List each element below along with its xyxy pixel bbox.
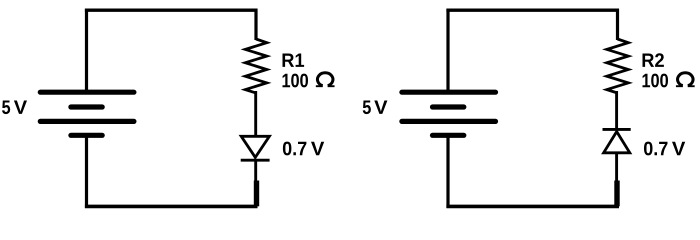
wire left-top (right circuit) — [446, 9, 449, 92]
diode D2 triangle (pointing up, anode bottom) — [604, 132, 630, 153]
wire diode to bottom thick stub (right circuit) — [614, 181, 619, 207]
wire diode to bottom thick stub (left circuit) — [254, 181, 259, 207]
wire left-top (left circuit) — [85, 9, 88, 92]
resistor R1 value 100 ohm — [283, 74, 309, 88]
resistor R1 zigzag — [245, 39, 266, 93]
wire top (left circuit) — [85, 9, 258, 12]
ohm symbol (R1 value) — [317, 73, 333, 86]
diode D1 cathode bar — [241, 159, 270, 162]
wire diode to bottom thin (right circuit) — [615, 153, 618, 183]
battery V2 plate short 2 — [433, 104, 464, 109]
ohm symbol (R2 value) — [678, 73, 694, 86]
resistor R2 value 100 ohm — [643, 74, 669, 88]
wire resistor to diode (right circuit) — [615, 91, 618, 131]
diode D2 cathode bar (on top, reversed diode) — [603, 128, 631, 131]
wire left-bottom (left circuit) — [85, 135, 88, 208]
wire diode to bottom thin (left circuit) — [254, 160, 257, 183]
diode D1 triangle (anode top, pointing down) — [241, 136, 269, 157]
battery V1 plate long top — [40, 90, 134, 95]
wire bottom (left circuit) — [85, 205, 258, 209]
wire left-bottom (right circuit) — [446, 135, 449, 208]
wire right-top (right circuit) — [616, 9, 619, 40]
resistor R1 label — [283, 54, 305, 67]
wire resistor to diode (left circuit) — [254, 91, 257, 137]
battery V2 plate long top — [402, 90, 496, 95]
battery V2 value label 5 V — [363, 101, 371, 115]
battery V2 plate long 3 — [402, 119, 496, 124]
battery V1 plate long 3 — [40, 119, 134, 124]
resistor R2 label — [643, 53, 664, 67]
wire right-top (left circuit) — [254, 9, 257, 40]
battery V2 plate short bottom — [433, 133, 464, 138]
wire top (right circuit) — [446, 9, 619, 12]
diode D1 voltage label 0.7 V — [283, 142, 307, 156]
wire bottom (right circuit) — [446, 205, 619, 209]
battery V1 plate short 2 — [71, 104, 102, 109]
resistor R2 zigzag — [607, 39, 629, 93]
battery V1 plate short bottom — [71, 133, 102, 138]
diode D2 voltage label 0.7 V — [644, 142, 668, 156]
battery V1 value label 5 V — [2, 101, 10, 115]
